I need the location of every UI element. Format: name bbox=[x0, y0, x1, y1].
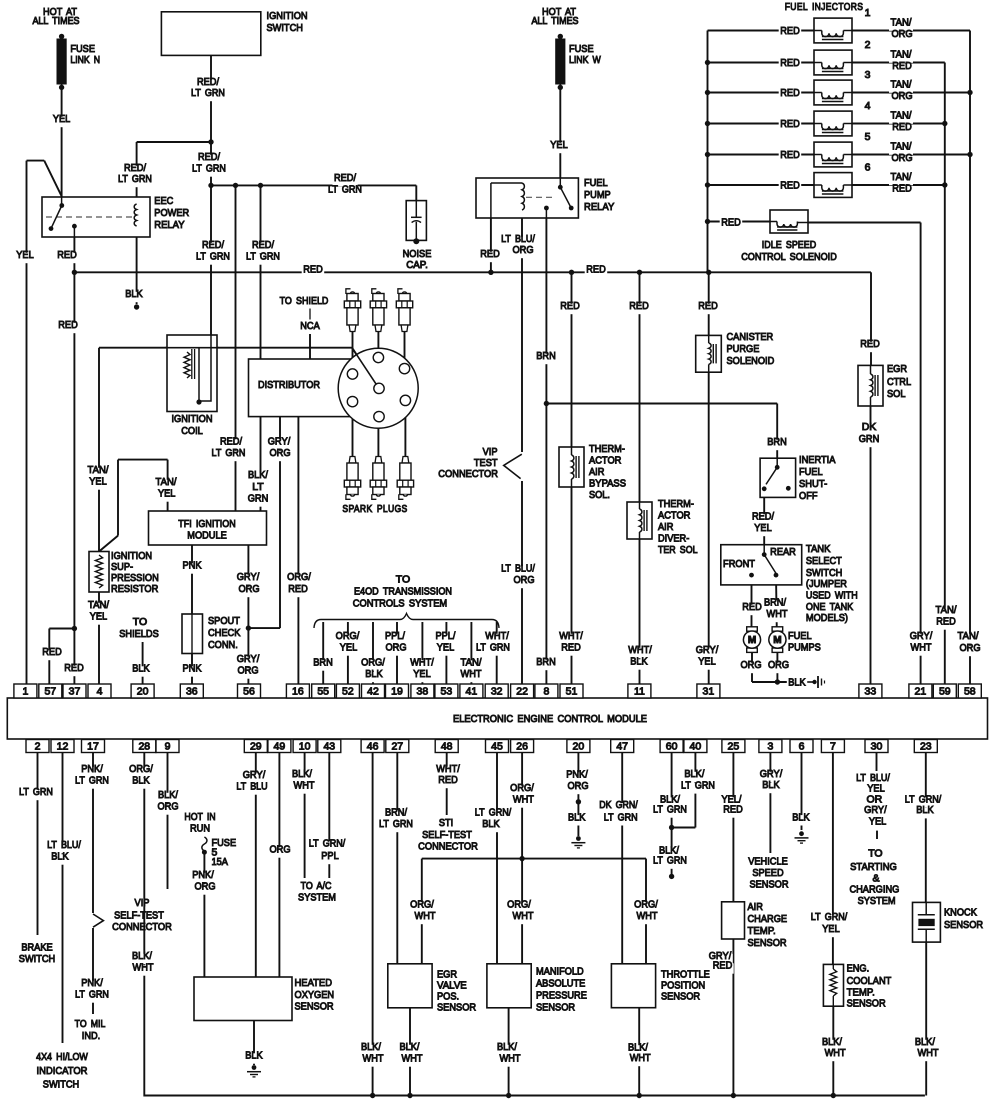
svg-text:58: 58 bbox=[964, 686, 976, 698]
svg-text:WHT: WHT bbox=[767, 608, 789, 620]
svg-text:15A: 15A bbox=[212, 856, 228, 868]
svg-text:53: 53 bbox=[441, 686, 453, 698]
svg-text:WHT/: WHT/ bbox=[485, 630, 509, 642]
svg-text:GRY/: GRY/ bbox=[237, 653, 260, 665]
svg-text:8: 8 bbox=[543, 686, 549, 698]
svg-text:49: 49 bbox=[274, 741, 286, 753]
svg-text:WHT: WHT bbox=[294, 780, 316, 792]
svg-text:IGNITION: IGNITION bbox=[171, 413, 212, 425]
svg-text:PUMPS: PUMPS bbox=[788, 642, 821, 654]
svg-text:1: 1 bbox=[865, 7, 871, 19]
svg-text:PNK/: PNK/ bbox=[81, 763, 103, 775]
svg-text:PNK/: PNK/ bbox=[566, 769, 588, 781]
svg-text:FUEL: FUEL bbox=[584, 177, 608, 189]
svg-text:PPL/: PPL/ bbox=[436, 630, 456, 642]
svg-text:TO: TO bbox=[133, 616, 147, 628]
svg-text:TAN/: TAN/ bbox=[891, 141, 912, 153]
svg-text:TAN/: TAN/ bbox=[891, 171, 912, 183]
svg-text:RED/: RED/ bbox=[198, 151, 220, 163]
svg-text:37: 37 bbox=[69, 686, 81, 698]
svg-text:59: 59 bbox=[939, 686, 951, 698]
svg-text:CONNECTOR: CONNECTOR bbox=[438, 468, 498, 480]
svg-text:SWITCH: SWITCH bbox=[19, 953, 55, 965]
svg-text:PUMP: PUMP bbox=[584, 189, 611, 201]
svg-text:RED: RED bbox=[713, 960, 733, 972]
svg-text:RELAY: RELAY bbox=[154, 219, 184, 231]
svg-text:7: 7 bbox=[830, 741, 836, 753]
svg-text:48: 48 bbox=[441, 741, 453, 753]
svg-text:WHT/: WHT/ bbox=[410, 657, 434, 669]
svg-text:TEMP.: TEMP. bbox=[748, 925, 776, 937]
svg-text:CHARGE: CHARGE bbox=[748, 913, 788, 925]
svg-text:LT GRN: LT GRN bbox=[604, 811, 638, 823]
svg-text:COIL: COIL bbox=[181, 425, 203, 437]
svg-text:22: 22 bbox=[516, 686, 528, 698]
svg-text:SENSOR: SENSOR bbox=[748, 937, 787, 949]
svg-text:SENSOR: SENSOR bbox=[944, 919, 983, 931]
svg-text:40: 40 bbox=[690, 741, 702, 753]
svg-text:STARTING: STARTING bbox=[850, 861, 897, 873]
svg-text:YEL: YEL bbox=[90, 611, 108, 623]
svg-text:BLK: BLK bbox=[245, 1050, 262, 1062]
svg-text:ORG/: ORG/ bbox=[361, 657, 385, 669]
svg-text:LT GRN/: LT GRN/ bbox=[811, 911, 847, 923]
svg-text:LT GRN: LT GRN bbox=[653, 855, 687, 867]
svg-text:COOLANT: COOLANT bbox=[847, 975, 892, 987]
svg-text:BYPASS: BYPASS bbox=[589, 478, 626, 490]
svg-text:HOT IN: HOT IN bbox=[184, 811, 215, 823]
svg-text:LT GRN: LT GRN bbox=[75, 775, 109, 787]
svg-text:ORG/: ORG/ bbox=[510, 782, 534, 794]
svg-text:OXYGEN: OXYGEN bbox=[295, 989, 335, 1001]
svg-text:NCA: NCA bbox=[300, 320, 320, 332]
svg-text:LT GRN: LT GRN bbox=[118, 173, 152, 185]
svg-text:BLK: BLK bbox=[788, 677, 805, 689]
svg-text:23: 23 bbox=[920, 741, 932, 753]
svg-text:GRY/: GRY/ bbox=[910, 630, 933, 642]
svg-text:21: 21 bbox=[915, 686, 927, 698]
svg-text:29: 29 bbox=[250, 741, 262, 753]
svg-text:BLK: BLK bbox=[568, 811, 585, 823]
svg-text:BLK: BLK bbox=[51, 851, 68, 863]
svg-text:LT GRN: LT GRN bbox=[196, 251, 230, 263]
svg-text:OFF: OFF bbox=[799, 490, 818, 502]
svg-text:20: 20 bbox=[573, 741, 585, 753]
svg-text:LT GRN/: LT GRN/ bbox=[309, 838, 345, 850]
svg-text:YEL: YEL bbox=[698, 656, 716, 668]
svg-text:CONTROLS SYSTEM: CONTROLS SYSTEM bbox=[353, 598, 447, 610]
svg-text:ORG: ORG bbox=[959, 642, 980, 654]
svg-text:9: 9 bbox=[165, 741, 171, 753]
svg-text:ABSOLUTE: ABSOLUTE bbox=[536, 978, 585, 990]
svg-text:TO SHIELD: TO SHIELD bbox=[280, 295, 329, 307]
svg-text:YEL: YEL bbox=[340, 642, 358, 654]
svg-text:INDICATOR: INDICATOR bbox=[37, 1065, 88, 1077]
svg-text:43: 43 bbox=[323, 741, 335, 753]
svg-text:RED: RED bbox=[57, 249, 77, 261]
svg-text:TAN/: TAN/ bbox=[936, 604, 957, 616]
svg-text:SWITCH: SWITCH bbox=[43, 1079, 79, 1091]
svg-text:YEL: YEL bbox=[822, 923, 840, 935]
svg-text:IDLE SPEED: IDLE SPEED bbox=[762, 239, 817, 251]
svg-text:DK: DK bbox=[862, 421, 877, 433]
svg-text:EEC: EEC bbox=[154, 195, 173, 207]
svg-text:RED/: RED/ bbox=[202, 239, 224, 251]
svg-text:ORG: ORG bbox=[237, 665, 258, 677]
svg-text:YEL: YEL bbox=[158, 488, 176, 500]
svg-text:TAN/: TAN/ bbox=[958, 630, 979, 642]
svg-text:28: 28 bbox=[138, 741, 150, 753]
svg-text:EGR: EGR bbox=[887, 363, 907, 375]
svg-text:RED: RED bbox=[560, 300, 580, 312]
svg-text:1: 1 bbox=[22, 686, 28, 698]
svg-text:RED: RED bbox=[721, 216, 741, 228]
svg-text:WHT: WHT bbox=[513, 794, 535, 806]
svg-text:17: 17 bbox=[87, 741, 99, 753]
svg-text:SYSTEM: SYSTEM bbox=[858, 895, 896, 907]
svg-text:LT GRN: LT GRN bbox=[328, 184, 362, 196]
svg-text:55: 55 bbox=[317, 686, 329, 698]
svg-text:RED: RED bbox=[438, 774, 458, 786]
svg-text:CHECK: CHECK bbox=[208, 627, 240, 639]
svg-text:PNK: PNK bbox=[183, 560, 202, 572]
svg-text:TAN/: TAN/ bbox=[156, 476, 177, 488]
svg-text:ELECTRONIC ENGINE CONTROL M: ELECTRONIC ENGINE CONTROL MODULE bbox=[453, 713, 647, 725]
svg-text:36: 36 bbox=[186, 686, 198, 698]
svg-text:SPARK PLUGS: SPARK PLUGS bbox=[342, 503, 407, 515]
svg-text:WHT: WHT bbox=[402, 1053, 424, 1065]
svg-text:ORG: ORG bbox=[269, 844, 290, 856]
svg-text:SOLENOID: SOLENOID bbox=[727, 355, 775, 367]
svg-text:TAN/: TAN/ bbox=[891, 110, 912, 122]
svg-text:BRAKE: BRAKE bbox=[21, 942, 52, 954]
svg-text:WHT: WHT bbox=[461, 668, 483, 680]
svg-text:TAN/: TAN/ bbox=[461, 657, 482, 669]
svg-text:E4OD TRANSMISSION: E4OD TRANSMISSION bbox=[354, 586, 452, 598]
svg-text:ORG: ORG bbox=[740, 659, 761, 671]
svg-text:56: 56 bbox=[243, 686, 255, 698]
svg-text:WHT: WHT bbox=[363, 1053, 385, 1065]
svg-text:BRN: BRN bbox=[536, 350, 556, 362]
svg-text:TO MIL: TO MIL bbox=[75, 1018, 106, 1030]
svg-text:ORG: ORG bbox=[891, 152, 912, 164]
svg-text:YEL: YEL bbox=[437, 642, 455, 654]
svg-text:BLK: BLK bbox=[630, 656, 647, 668]
svg-text:STI: STI bbox=[439, 817, 453, 829]
svg-text:YEL: YEL bbox=[16, 249, 34, 261]
svg-text:YEL: YEL bbox=[413, 668, 431, 680]
svg-text:GRN: GRN bbox=[248, 493, 269, 505]
svg-text:POWER: POWER bbox=[154, 207, 189, 219]
svg-text:6: 6 bbox=[865, 162, 871, 174]
svg-text:27: 27 bbox=[391, 741, 403, 753]
svg-text:ALL TIMES: ALL TIMES bbox=[32, 15, 79, 27]
svg-text:RED/: RED/ bbox=[752, 511, 774, 523]
svg-text:LT GRN: LT GRN bbox=[192, 163, 226, 175]
svg-text:RED: RED bbox=[780, 180, 800, 192]
svg-text:BLK/: BLK/ bbox=[248, 469, 268, 481]
svg-text:GRY/: GRY/ bbox=[268, 436, 291, 448]
svg-text:FRONT: FRONT bbox=[723, 558, 755, 570]
svg-text:45: 45 bbox=[491, 741, 503, 753]
svg-text:WHT: WHT bbox=[500, 1053, 522, 1065]
svg-text:ORG/: ORG/ bbox=[507, 899, 531, 911]
svg-text:5: 5 bbox=[865, 131, 871, 143]
svg-text:VEHICLE: VEHICLE bbox=[748, 856, 788, 868]
svg-text:DISTRIBUTOR: DISTRIBUTOR bbox=[258, 379, 320, 391]
svg-text:WHT: WHT bbox=[918, 1047, 940, 1059]
svg-text:PURGE: PURGE bbox=[727, 343, 760, 355]
svg-text:CTRL: CTRL bbox=[887, 376, 911, 388]
svg-text:ACTOR: ACTOR bbox=[658, 510, 691, 522]
svg-text:FUEL: FUEL bbox=[788, 630, 812, 642]
svg-text:ORG: ORG bbox=[512, 244, 533, 256]
svg-text:IGNITION: IGNITION bbox=[267, 10, 308, 22]
svg-text:VIP: VIP bbox=[135, 897, 150, 909]
svg-text:YEL: YEL bbox=[754, 522, 772, 534]
svg-text:IND.: IND. bbox=[82, 1030, 101, 1042]
svg-text:MANIFOLD: MANIFOLD bbox=[536, 966, 584, 978]
svg-text:ORG: ORG bbox=[891, 90, 912, 102]
svg-text:BLK: BLK bbox=[792, 811, 809, 823]
svg-text:BLK: BLK bbox=[916, 804, 933, 816]
svg-text:RUN: RUN bbox=[190, 823, 210, 835]
svg-text:51: 51 bbox=[566, 686, 578, 698]
svg-text:BLK/: BLK/ bbox=[292, 768, 312, 780]
svg-text:4: 4 bbox=[97, 686, 103, 698]
svg-text:INERTIA: INERTIA bbox=[799, 454, 835, 466]
svg-text:BLK: BLK bbox=[365, 668, 382, 680]
svg-text:WHT: WHT bbox=[415, 910, 437, 922]
svg-text:BRN: BRN bbox=[767, 436, 787, 448]
svg-text:LT BLU/: LT BLU/ bbox=[47, 839, 81, 851]
svg-text:HEATED: HEATED bbox=[295, 977, 333, 989]
svg-text:BLK/: BLK/ bbox=[684, 768, 704, 780]
svg-text:SPEED: SPEED bbox=[752, 867, 784, 879]
svg-text:4X4 HI/LOW: 4X4 HI/LOW bbox=[36, 1051, 88, 1063]
svg-text:6: 6 bbox=[799, 741, 805, 753]
svg-text:YEL: YEL bbox=[869, 815, 887, 827]
svg-text:WHT: WHT bbox=[637, 910, 659, 922]
svg-text:12: 12 bbox=[57, 741, 69, 753]
svg-text:AIR: AIR bbox=[589, 466, 605, 478]
svg-text:SOL.: SOL. bbox=[589, 489, 610, 501]
svg-text:BLK/: BLK/ bbox=[361, 1041, 381, 1053]
svg-text:THERM-: THERM- bbox=[589, 443, 625, 455]
svg-text:SPOUT: SPOUT bbox=[208, 615, 240, 627]
svg-text:PNK/: PNK/ bbox=[192, 869, 214, 881]
svg-text:RED: RED bbox=[936, 616, 956, 628]
svg-text:2: 2 bbox=[35, 741, 41, 753]
svg-text:ORG: ORG bbox=[891, 28, 912, 40]
svg-text:CHARGING: CHARGING bbox=[849, 883, 899, 895]
svg-text:CONN.: CONN. bbox=[208, 639, 238, 651]
svg-text:MODULE: MODULE bbox=[187, 530, 227, 542]
svg-text:LT GRN: LT GRN bbox=[379, 818, 413, 830]
svg-text:ORG: ORG bbox=[269, 447, 290, 459]
svg-text:42: 42 bbox=[367, 686, 379, 698]
svg-text:GRY/: GRY/ bbox=[696, 644, 719, 656]
svg-text:SHIELDS: SHIELDS bbox=[119, 628, 159, 640]
svg-text:RED/: RED/ bbox=[252, 239, 274, 251]
svg-text:TO A/C: TO A/C bbox=[301, 880, 332, 892]
svg-text:PNK: PNK bbox=[183, 663, 202, 675]
svg-text:SENSOR: SENSOR bbox=[437, 1002, 476, 1014]
svg-text:25: 25 bbox=[728, 741, 740, 753]
svg-text:CAP.: CAP. bbox=[406, 259, 428, 271]
svg-text:BLK: BLK bbox=[132, 775, 149, 787]
svg-text:RED: RED bbox=[58, 319, 78, 331]
svg-text:SELECT: SELECT bbox=[806, 555, 842, 567]
svg-text:GRY/: GRY/ bbox=[237, 571, 260, 583]
svg-text:ALL TIMES: ALL TIMES bbox=[531, 15, 578, 27]
svg-text:GRY/: GRY/ bbox=[243, 769, 266, 781]
svg-text:47: 47 bbox=[616, 741, 628, 753]
svg-text:RED: RED bbox=[64, 662, 84, 674]
svg-text:BRN/: BRN/ bbox=[385, 807, 407, 819]
svg-text:CANISTER: CANISTER bbox=[727, 331, 774, 343]
svg-text:BLK: BLK bbox=[132, 663, 149, 675]
svg-text:WHT/: WHT/ bbox=[559, 630, 583, 642]
svg-text:ORG/: ORG/ bbox=[336, 630, 360, 642]
svg-text:RED: RED bbox=[780, 118, 800, 130]
svg-text:SOL: SOL bbox=[887, 388, 906, 400]
svg-text:2: 2 bbox=[865, 39, 871, 51]
svg-text:RED/: RED/ bbox=[220, 436, 242, 448]
svg-text:RED: RED bbox=[586, 264, 606, 276]
svg-text:BRN/: BRN/ bbox=[764, 597, 786, 609]
svg-text:AIR: AIR bbox=[748, 901, 764, 913]
svg-text:TFI IGNITION: TFI IGNITION bbox=[178, 518, 236, 530]
svg-text:RESISTOR: RESISTOR bbox=[111, 583, 159, 595]
svg-text:RED: RED bbox=[303, 264, 323, 276]
svg-text:M: M bbox=[773, 635, 781, 646]
svg-text:3: 3 bbox=[865, 69, 871, 81]
svg-text:CONTROL SOLENOID: CONTROL SOLENOID bbox=[741, 251, 837, 263]
svg-text:WHT: WHT bbox=[630, 1052, 652, 1064]
svg-text:10: 10 bbox=[299, 741, 311, 753]
svg-text:RELAY: RELAY bbox=[584, 201, 614, 213]
svg-text:USED WITH: USED WITH bbox=[806, 590, 858, 602]
svg-text:PPL: PPL bbox=[321, 850, 339, 862]
svg-text:46: 46 bbox=[367, 741, 379, 753]
svg-text:ORG/: ORG/ bbox=[287, 571, 311, 583]
svg-text:TAN/: TAN/ bbox=[891, 79, 912, 91]
svg-text:BLK/: BLK/ bbox=[400, 1041, 420, 1053]
svg-text:LT GRN: LT GRN bbox=[476, 642, 510, 654]
svg-text:SENSOR: SENSOR bbox=[749, 879, 788, 891]
svg-text:LT GRN: LT GRN bbox=[212, 447, 246, 459]
svg-text:ORG/: ORG/ bbox=[410, 899, 434, 911]
svg-text:SELF-TEST: SELF-TEST bbox=[422, 829, 472, 841]
svg-text:CONNECTOR: CONNECTOR bbox=[418, 841, 478, 853]
svg-text:RED: RED bbox=[860, 338, 880, 350]
svg-text:(JUMPER: (JUMPER bbox=[806, 578, 847, 590]
svg-text:TER SOL: TER SOL bbox=[658, 544, 698, 556]
svg-text:SENSOR: SENSOR bbox=[295, 1001, 334, 1013]
svg-text:RED/: RED/ bbox=[334, 172, 356, 184]
svg-text:LT GRN: LT GRN bbox=[19, 786, 53, 798]
svg-text:ORG/: ORG/ bbox=[634, 899, 658, 911]
svg-text:RED: RED bbox=[742, 601, 762, 613]
svg-text:11: 11 bbox=[634, 686, 645, 698]
svg-text:57: 57 bbox=[44, 686, 56, 698]
svg-text:ORG: ORG bbox=[157, 801, 178, 813]
svg-text:20: 20 bbox=[137, 686, 149, 698]
svg-text:BLK: BLK bbox=[125, 288, 142, 300]
svg-text:REAR: REAR bbox=[770, 546, 796, 558]
svg-text:SENSOR: SENSOR bbox=[661, 991, 700, 1003]
svg-text:TO: TO bbox=[396, 574, 410, 586]
svg-text:RED: RED bbox=[288, 583, 308, 595]
svg-text:BRN: BRN bbox=[536, 656, 556, 668]
svg-text:RED: RED bbox=[723, 804, 743, 816]
svg-text:RED: RED bbox=[698, 300, 718, 312]
svg-text:GRN: GRN bbox=[859, 433, 880, 445]
svg-text:SELF-TEST: SELF-TEST bbox=[114, 910, 164, 922]
svg-text:SENSOR: SENSOR bbox=[536, 1002, 575, 1014]
svg-text:RED: RED bbox=[42, 646, 62, 658]
svg-text:32: 32 bbox=[491, 686, 503, 698]
svg-text:AIR: AIR bbox=[658, 521, 674, 533]
svg-text:LT GRN: LT GRN bbox=[246, 251, 280, 263]
svg-text:BLK/: BLK/ bbox=[158, 789, 178, 801]
svg-text:TAN/: TAN/ bbox=[891, 49, 912, 61]
svg-text:LT: LT bbox=[252, 481, 264, 493]
svg-text:3: 3 bbox=[767, 741, 773, 753]
svg-text:CONNECTOR: CONNECTOR bbox=[112, 921, 172, 933]
svg-text:BLK/: BLK/ bbox=[132, 950, 152, 962]
svg-text:M: M bbox=[748, 635, 756, 646]
svg-text:LT GRN: LT GRN bbox=[653, 804, 687, 816]
svg-text:FUEL INJECTORS: FUEL INJECTORS bbox=[785, 1, 864, 13]
svg-text:DK GRN/: DK GRN/ bbox=[599, 799, 638, 811]
svg-text:TAN/: TAN/ bbox=[88, 599, 109, 611]
svg-text:RED: RED bbox=[892, 182, 912, 194]
svg-text:SENSOR: SENSOR bbox=[847, 998, 886, 1010]
svg-text:RED: RED bbox=[780, 149, 800, 161]
svg-text:26: 26 bbox=[516, 741, 528, 753]
svg-text:38: 38 bbox=[417, 686, 429, 698]
svg-text:33: 33 bbox=[865, 686, 877, 698]
svg-text:30: 30 bbox=[871, 741, 883, 753]
svg-text:PNK/: PNK/ bbox=[81, 977, 103, 989]
svg-text:WHT: WHT bbox=[133, 962, 155, 974]
svg-text:SWITCH: SWITCH bbox=[267, 22, 303, 34]
svg-text:ACTOR: ACTOR bbox=[589, 455, 622, 467]
svg-text:ENG.: ENG. bbox=[847, 963, 870, 975]
svg-text:FUEL: FUEL bbox=[799, 466, 823, 478]
svg-text:ORG/: ORG/ bbox=[129, 763, 153, 775]
svg-text:LINK W: LINK W bbox=[569, 54, 601, 66]
svg-text:LT GRN/: LT GRN/ bbox=[475, 807, 511, 819]
svg-text:TO: TO bbox=[868, 848, 882, 860]
svg-text:BLK: BLK bbox=[482, 818, 499, 830]
svg-text:WHT: WHT bbox=[825, 1047, 847, 1059]
svg-text:RED: RED bbox=[780, 87, 800, 99]
svg-text:60: 60 bbox=[666, 741, 678, 753]
svg-text:WHT: WHT bbox=[513, 910, 535, 922]
svg-text:LT GRN: LT GRN bbox=[75, 989, 109, 1001]
svg-text:RED: RED bbox=[780, 25, 800, 37]
svg-text:41: 41 bbox=[466, 686, 478, 698]
svg-text:BRN: BRN bbox=[313, 657, 333, 669]
svg-text:52: 52 bbox=[342, 686, 354, 698]
svg-text:LT BLU: LT BLU bbox=[236, 781, 267, 793]
svg-text:RED: RED bbox=[892, 60, 912, 72]
svg-text:PPL/: PPL/ bbox=[385, 630, 405, 642]
svg-text:DIVER-: DIVER- bbox=[658, 533, 690, 545]
